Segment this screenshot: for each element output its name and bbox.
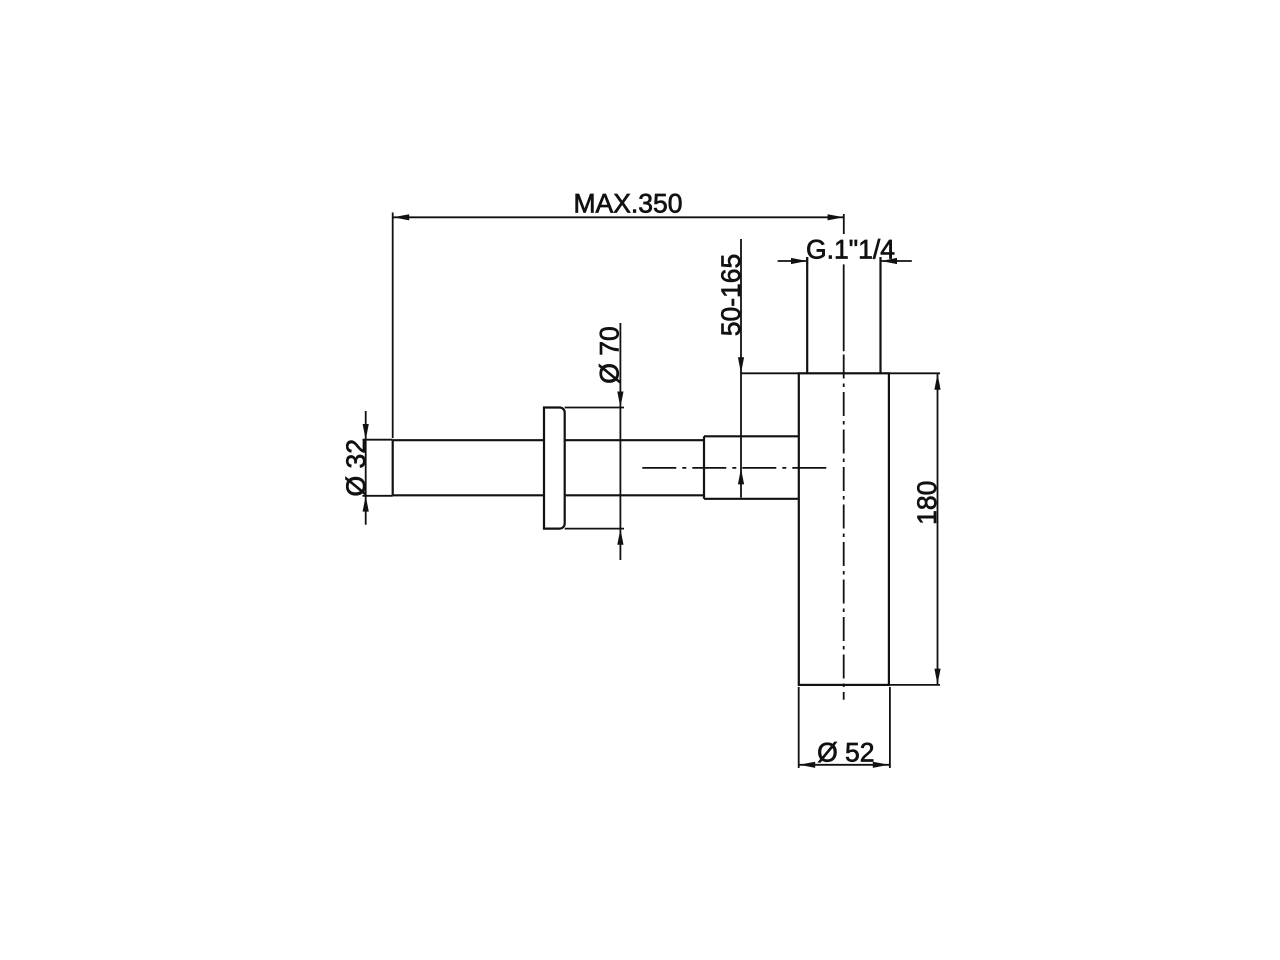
svg-text:Ø 70: Ø 70 <box>595 326 625 383</box>
svg-text:180: 180 <box>912 481 942 525</box>
svg-text:MAX.350: MAX.350 <box>573 189 682 219</box>
svg-text:Ø 32: Ø 32 <box>341 439 371 496</box>
svg-text:50-165: 50-165 <box>716 254 746 337</box>
svg-text:Ø 52: Ø 52 <box>817 738 874 768</box>
svg-text:G.1"1/4: G.1"1/4 <box>806 235 895 265</box>
